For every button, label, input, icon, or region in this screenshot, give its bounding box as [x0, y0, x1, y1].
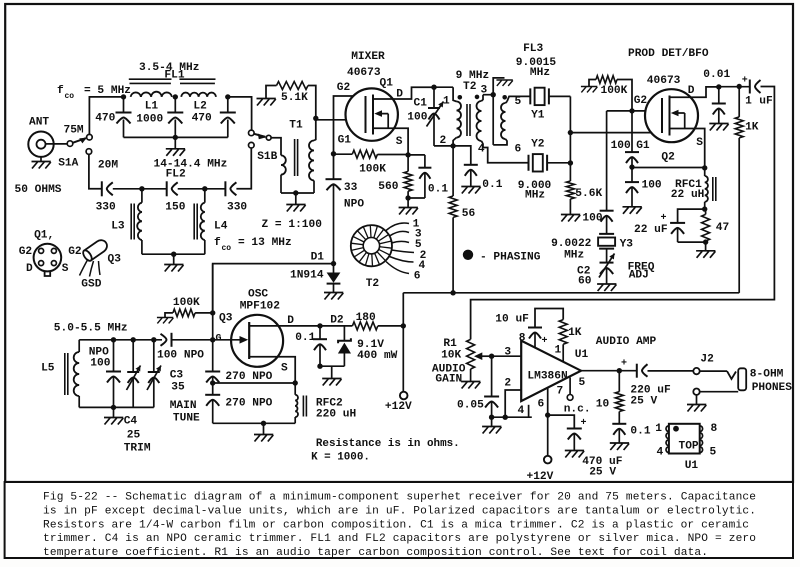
svg-text:2: 2	[504, 378, 511, 390]
capacitor 330 left	[101, 181, 103, 196]
svg-text:OSC: OSC	[248, 289, 268, 301]
node D1	[331, 261, 336, 266]
svg-text:R1: R1	[443, 338, 457, 350]
svg-text:100: 100	[90, 358, 110, 370]
wire	[165, 313, 173, 318]
svg-text:D2: D2	[330, 315, 344, 327]
node G2-100K-33	[331, 151, 336, 156]
capacitor 0.1 mixer	[424, 155, 426, 168]
transformer T2 primary	[453, 87, 456, 101]
svg-text:is in pF except decimal-value: is in pF except decimal-value units, whi…	[43, 505, 756, 517]
ground	[461, 382, 480, 389]
ic U1 DIP-8 pictorial	[666, 426, 669, 432]
svg-text:G2: G2	[337, 82, 351, 94]
inductor L4	[204, 189, 206, 203]
svg-text:NPO: NPO	[344, 199, 364, 211]
capacitor 330 right	[224, 181, 226, 196]
svg-text:25 V: 25 V	[630, 396, 657, 408]
transformer T1 core	[295, 139, 298, 176]
capacitor 22 uF	[670, 222, 685, 224]
resistor 47	[702, 214, 710, 241]
svg-text:35: 35	[171, 382, 185, 394]
jack J2 tip terminal	[693, 368, 699, 374]
svg-text:0.1: 0.1	[295, 332, 315, 344]
node Y1 out	[568, 130, 573, 135]
ground	[257, 99, 276, 106]
wire output	[581, 370, 637, 372]
Q1 drain lead	[373, 87, 434, 99]
ground	[461, 187, 480, 194]
svg-text:Q3: Q3	[219, 313, 233, 325]
svg-text:J2: J2	[700, 354, 714, 366]
svg-text:L4: L4	[214, 221, 228, 233]
wire	[452, 217, 454, 292]
ground	[113, 407, 115, 417]
Q3 drain lead	[249, 325, 320, 327]
svg-text:Q3: Q3	[108, 254, 122, 266]
ground	[581, 87, 597, 93]
svg-text:AUDIO AMP: AUDIO AMP	[596, 336, 657, 348]
svg-text:MAIN: MAIN	[170, 400, 197, 412]
node	[202, 186, 207, 191]
node	[489, 354, 494, 359]
svg-text:20M: 20M	[98, 160, 118, 172]
switch S1B arm	[254, 134, 265, 137]
svg-text:6: 6	[538, 399, 545, 411]
wire	[308, 86, 316, 119]
svg-text:100: 100	[642, 180, 662, 192]
svg-text:C1: C1	[414, 98, 428, 110]
svg-text:MHz: MHz	[564, 250, 584, 262]
zener D2 9.1V	[343, 326, 345, 341]
svg-text:G2: G2	[19, 246, 33, 258]
svg-text:U1: U1	[575, 349, 589, 361]
svg-text:75M: 75M	[64, 125, 84, 137]
node	[111, 405, 116, 410]
R1 wiper arrow	[478, 355, 492, 357]
svg-text:G2: G2	[634, 95, 648, 107]
trimmer C1	[433, 87, 435, 108]
svg-text:LM386N: LM386N	[527, 371, 567, 383]
node FL1 out	[225, 94, 230, 99]
svg-text:1: 1	[655, 423, 662, 435]
wire tank top	[79, 339, 162, 341]
Q1 package pictorial	[34, 244, 62, 272]
node	[293, 190, 298, 195]
ground	[610, 443, 629, 450]
filter FL1 bracket lines	[129, 79, 216, 83]
svg-text:TOP: TOP	[679, 441, 699, 453]
capacitor 33 NPO	[326, 178, 342, 180]
wire FL1 to S1B	[228, 97, 252, 130]
svg-text:trimmer. C4 is an NPO ceramic: trimmer. C4 is an NPO ceramic trimmer. F…	[43, 533, 756, 545]
svg-text:1K: 1K	[568, 327, 582, 339]
svg-text:D: D	[396, 89, 403, 101]
switch S1A 20M contact	[86, 149, 92, 155]
ground	[709, 124, 728, 131]
svg-text:1K: 1K	[745, 122, 759, 134]
wire	[89, 97, 123, 134]
core RFC2	[303, 396, 306, 417]
wire Y3 branch vertical	[606, 111, 608, 211]
svg-text:L2: L2	[193, 101, 207, 113]
inductor RFC2	[294, 383, 296, 395]
wire	[172, 339, 213, 341]
svg-text:+: +	[542, 336, 548, 347]
inductor L1	[131, 92, 172, 97]
wire	[606, 249, 608, 263]
svg-text:7: 7	[557, 386, 564, 398]
node	[210, 380, 215, 385]
inductor L3	[141, 189, 143, 203]
svg-text:33: 33	[344, 182, 358, 194]
capacitor 470 right	[227, 97, 229, 113]
svg-text:150: 150	[165, 202, 185, 214]
wire	[589, 80, 596, 87]
svg-text:40673: 40673	[347, 67, 381, 79]
ground	[705, 242, 707, 251]
svg-text:47: 47	[716, 222, 729, 234]
resistor 5.1K	[277, 82, 309, 90]
svg-text:1: 1	[443, 96, 450, 108]
node	[702, 165, 707, 170]
wire	[46, 143, 68, 145]
antenna connector J1	[28, 132, 53, 157]
svg-text:Q1,: Q1,	[34, 230, 54, 242]
svg-text:D: D	[287, 315, 294, 327]
svg-text:100K: 100K	[359, 164, 386, 176]
node	[545, 412, 550, 417]
inductor L2	[181, 93, 216, 97]
svg-text:5: 5	[515, 96, 522, 108]
wire	[547, 162, 570, 164]
svg-text:temperature coefficient. R1 is: temperature coefficient. R1 is an audio …	[43, 547, 708, 559]
svg-text:K = 1000.: K = 1000.	[311, 452, 370, 464]
svg-text:S: S	[62, 263, 69, 275]
svg-text:co: co	[65, 92, 75, 101]
wire	[700, 370, 727, 372]
wire 0.1 bypass	[453, 146, 471, 165]
ground	[565, 451, 584, 458]
svg-text:25 V: 25 V	[589, 467, 616, 479]
wire	[320, 365, 344, 367]
svg-text:4: 4	[657, 447, 664, 459]
node	[151, 337, 156, 342]
capacitor 270 NPO upper	[205, 371, 220, 373]
wire	[113, 188, 167, 190]
svg-text:Resistance is in ohms.: Resistance is in ohms.	[316, 438, 460, 450]
wire	[700, 391, 739, 393]
inductor RFC1	[704, 168, 706, 176]
svg-text:Q2: Q2	[661, 152, 675, 164]
wire	[678, 209, 705, 223]
wire	[493, 78, 504, 95]
svg-text:270 NPO: 270 NPO	[225, 371, 272, 383]
Q2 source lead	[670, 129, 705, 168]
svg-text:Fig 5-22 -- Schematic diagram: Fig 5-22 -- Schematic diagram of a minim…	[43, 492, 756, 504]
node	[173, 135, 178, 140]
switch S1A 75M contact	[87, 134, 93, 140]
capacitor 0.1 audio	[618, 412, 620, 424]
svg-text:G2: G2	[68, 246, 82, 258]
core L3	[131, 204, 134, 240]
wire	[434, 145, 453, 147]
svg-text:FL3: FL3	[523, 43, 543, 55]
phasing dot	[502, 95, 507, 100]
svg-text:0.01: 0.01	[703, 69, 730, 81]
capacitor 100 divider lower	[631, 167, 633, 182]
capacitor 0.01	[718, 87, 720, 104]
svg-text:Z = 1:100: Z = 1:100	[262, 219, 323, 231]
toroid T2 pictorial	[351, 225, 392, 266]
node	[261, 421, 266, 426]
DIP pin1 mark	[673, 426, 679, 432]
resistor 100K mixer	[334, 153, 353, 155]
node gate	[210, 337, 215, 342]
svg-text:T1: T1	[289, 120, 303, 132]
diode D1 1N914	[333, 264, 335, 273]
svg-text:5.1K: 5.1K	[281, 92, 308, 104]
wire	[378, 325, 404, 327]
svg-text:+: +	[621, 359, 627, 370]
svg-text:Y2: Y2	[531, 139, 545, 151]
svg-text:4: 4	[518, 405, 525, 417]
node	[491, 92, 496, 97]
phasing legend dot	[463, 250, 473, 260]
wire +12V bus	[403, 292, 739, 294]
terminal +12V	[544, 456, 552, 464]
svg-text:330: 330	[96, 202, 116, 214]
svg-text:400 mW: 400 mW	[357, 350, 398, 362]
potentiometer R1 10K	[467, 339, 475, 369]
ground	[157, 318, 173, 324]
svg-text:+: +	[742, 76, 748, 87]
svg-text:25: 25	[127, 430, 141, 442]
wire	[271, 138, 281, 156]
svg-text:co: co	[222, 244, 232, 253]
svg-text:L1: L1	[145, 101, 159, 113]
svg-text:14-14.4 MHz: 14-14.4 MHz	[154, 159, 228, 171]
svg-text:GAIN: GAIN	[435, 374, 462, 386]
wire	[89, 154, 102, 188]
jack J2 sleeve terminal	[693, 389, 699, 395]
op-amp U1 LM386N	[521, 341, 581, 402]
crystal Y1	[530, 88, 549, 104]
svg-text:3: 3	[504, 347, 511, 359]
Q3 gate arrow	[213, 339, 246, 341]
svg-text:D: D	[688, 85, 695, 97]
svg-text:FL2: FL2	[166, 169, 186, 181]
node	[703, 239, 708, 244]
core L5	[65, 353, 68, 395]
resistor 56	[449, 196, 457, 217]
ground	[40, 157, 42, 162]
ground	[331, 366, 333, 378]
node	[171, 252, 176, 257]
wire drain row	[719, 86, 750, 88]
node Y2 out	[568, 160, 573, 165]
svg-text:C3: C3	[170, 370, 184, 382]
wire	[408, 197, 425, 199]
svg-text:100: 100	[407, 112, 427, 124]
node	[293, 380, 298, 385]
wire	[617, 80, 632, 111]
capacitor 0.1 osc	[319, 326, 321, 339]
svg-text:ADJ: ADJ	[629, 270, 649, 282]
wire tank bottom	[79, 406, 154, 408]
svg-text:MPF102: MPF102	[240, 301, 281, 313]
svg-text:G1: G1	[636, 140, 650, 152]
svg-text:+12V: +12V	[385, 401, 412, 413]
wire	[408, 154, 425, 156]
Q2 drain lead	[670, 87, 719, 97]
svg-text:100 NPO: 100 NPO	[157, 350, 204, 362]
wire LO injection	[213, 264, 334, 313]
ground	[496, 80, 512, 86]
transformer T2 core	[467, 104, 470, 136]
svg-text:0.1: 0.1	[630, 426, 650, 438]
op Q2 40673 MOSFET	[645, 89, 698, 142]
trimmer C4	[132, 340, 134, 372]
wire drain row	[320, 325, 352, 327]
svg-text:220 uH: 220 uH	[316, 409, 356, 421]
svg-text:6: 6	[515, 144, 522, 156]
wire feedback top	[535, 309, 563, 328]
caption box	[5, 482, 793, 558]
node L1-L2	[173, 94, 178, 99]
Q1 substrate arrow	[377, 114, 388, 129]
svg-text:TRIM: TRIM	[124, 443, 151, 455]
svg-text:56: 56	[462, 208, 476, 220]
svg-text:470: 470	[95, 113, 115, 125]
svg-text:60: 60	[578, 276, 592, 288]
crystal Y3	[599, 234, 614, 249]
node	[405, 195, 410, 200]
svg-text:f: f	[57, 85, 64, 97]
ground	[173, 254, 175, 264]
node	[617, 368, 622, 373]
capacitor NPO 100	[113, 340, 115, 372]
node	[431, 85, 436, 90]
wire 330 to S1B	[236, 148, 251, 189]
resistor 100K BFO	[596, 76, 617, 84]
core RFC1	[713, 177, 716, 201]
svg-text:S: S	[696, 137, 703, 149]
node	[450, 290, 455, 295]
svg-text:1N914: 1N914	[290, 270, 324, 282]
wire	[648, 370, 694, 372]
svg-text:MIXER: MIXER	[351, 51, 385, 63]
svg-text:5.6K: 5.6K	[575, 188, 602, 200]
capacitor 10 uF	[528, 327, 542, 329]
wire source to divider	[632, 167, 705, 169]
resistor 10	[618, 371, 620, 392]
svg-text:S: S	[396, 136, 403, 148]
capacitor 0.05	[491, 356, 493, 396]
transformer T2 secondary A	[482, 95, 484, 101]
svg-text:2: 2	[440, 135, 447, 147]
svg-text:L3: L3	[111, 221, 125, 233]
wire	[738, 138, 740, 293]
svg-text:270 NPO: 270 NPO	[225, 398, 272, 410]
svg-text:D1: D1	[311, 252, 325, 264]
svg-text:10 uF: 10 uF	[495, 314, 529, 326]
wire +12V feed	[402, 293, 404, 392]
svg-text:8: 8	[519, 333, 526, 345]
wire gnd bus	[492, 416, 532, 418]
node	[131, 337, 136, 342]
node S	[405, 152, 410, 157]
svg-text:6: 6	[414, 271, 421, 283]
svg-text:470: 470	[192, 113, 212, 125]
wire	[178, 188, 226, 190]
svg-text:0.1: 0.1	[482, 179, 502, 191]
svg-text:330: 330	[227, 202, 247, 214]
svg-text:C4: C4	[124, 416, 138, 428]
node	[317, 364, 322, 369]
transistor Q3 MPF102	[231, 315, 283, 367]
wire G2 vertical	[334, 96, 366, 179]
node	[210, 310, 215, 315]
svg-text:22 uH: 22 uH	[671, 189, 705, 201]
capacitor 220 uF	[636, 364, 638, 378]
svg-text:L5: L5	[41, 363, 55, 375]
svg-text:+12V: +12V	[527, 471, 554, 483]
svg-text:100: 100	[611, 140, 631, 152]
svg-text:100: 100	[582, 213, 602, 225]
op Q1 40673 MOSFET	[346, 88, 398, 140]
phasing dot	[458, 95, 463, 100]
capacitor 0.1	[464, 164, 478, 166]
toroid T2 leads	[386, 223, 414, 274]
wire pin1	[562, 344, 564, 362]
capacitor 1000	[174, 97, 176, 113]
wire G1 row	[570, 132, 662, 134]
svg-text:G1: G1	[338, 135, 352, 147]
transformer T2 secondary B	[506, 102, 508, 104]
node G2	[629, 108, 634, 113]
svg-text:40673: 40673	[647, 75, 681, 87]
svg-text:22 uF: 22 uF	[634, 224, 668, 236]
svg-text:S1A: S1A	[58, 158, 78, 170]
ground	[696, 395, 698, 405]
svg-text:180: 180	[356, 312, 376, 324]
ground	[174, 137, 176, 148]
svg-text:1000: 1000	[136, 114, 163, 126]
wire gate vertical	[212, 264, 214, 372]
node	[716, 84, 721, 89]
terminal +12V	[400, 392, 408, 400]
svg-text:Q1: Q1	[380, 78, 394, 90]
Q3 source lead	[249, 357, 295, 383]
capacitor 470 left	[123, 97, 125, 113]
wire	[195, 312, 213, 314]
Q1 source lead	[373, 128, 408, 155]
wire pin2	[505, 390, 521, 417]
svg-text:U1: U1	[685, 460, 699, 472]
capacitor 100 to Y3	[600, 210, 614, 212]
svg-text:+: +	[581, 418, 587, 429]
svg-text:Y3: Y3	[620, 239, 634, 251]
svg-text:TUNE: TUNE	[173, 413, 200, 425]
svg-text:1: 1	[745, 96, 752, 108]
capacitor 1 uF	[749, 80, 751, 94]
svg-text:50 OHMS: 50 OHMS	[15, 184, 62, 196]
svg-text:S1B: S1B	[257, 151, 277, 163]
wire pin4	[528, 405, 530, 417]
svg-text:S: S	[281, 363, 288, 375]
node	[317, 323, 322, 328]
